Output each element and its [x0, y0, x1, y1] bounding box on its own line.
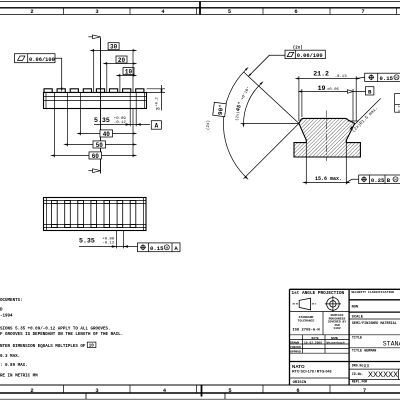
svg-text:NAME: NAME — [331, 337, 338, 340]
svg-text:-0.12: -0.12 — [114, 121, 127, 125]
sheet top zone band bottom line — [0, 14, 400, 16]
svg-text:+0.2: +0.2 — [156, 97, 160, 107]
title block texts — [292, 291, 345, 296]
svg-text:TITLE GERMAN: TITLE GERMAN — [352, 350, 376, 354]
sheet top trim line (thick) — [0, 7, 400, 9]
svg-text:15.6 max.: 15.6 max. — [315, 176, 342, 182]
svg-text:STANAG 46: STANAG 46 — [383, 341, 400, 348]
flatness frame 0.06/100 (top right) — [285, 50, 325, 58]
svg-text:1st ANGLE PROJECTION: 1st ANGLE PROJECTION — [292, 291, 345, 296]
plan view outer rect — [44, 198, 147, 231]
svg-text:ORIGIN: ORIGIN — [293, 381, 307, 385]
top zone ticks — [64, 8, 397, 15]
section profile — [294, 118, 360, 157]
svg-text:40: 40 — [103, 131, 111, 138]
svg-text:ISO 2768-m-H: ISO 2768-m-H — [292, 329, 320, 333]
svg-text:0.06/100: 0.06/100 — [29, 57, 55, 63]
svg-text:0.15: 0.15 — [150, 245, 164, 252]
svg-text:B: B — [368, 88, 372, 95]
plan view chamfer lines — [44, 198, 147, 231]
svg-text:20: 20 — [118, 57, 126, 64]
svg-text:-0.13: -0.13 — [335, 75, 348, 79]
svg-text:OCUMENTS:: OCUMENTS: — [0, 299, 23, 303]
svg-text:5: 5 — [228, 388, 231, 394]
svg-text:7: 7 — [363, 388, 366, 394]
svg-text:SCALE: SCALE — [352, 316, 364, 320]
svg-text:5.35: 5.35 — [94, 117, 110, 124]
svg-text:RTO SCI-178 / RTG-043: RTO SCI-178 / RTG-043 — [292, 370, 331, 374]
dimension 19 +-0.05 — [301, 89, 303, 117]
svg-text:(2x): (2x) — [206, 120, 211, 130]
datum B box — [366, 87, 374, 95]
dimension 5.35 groove width (side view) — [130, 92, 136, 126]
svg-text:0.25: 0.25 — [371, 177, 385, 184]
dimension 21.2 -0.13 — [299, 76, 356, 121]
svg-text:SECURITY CLASSIFICATION: SECURITY CLASSIFICATION — [351, 290, 394, 294]
dimension 50 — [68, 144, 134, 146]
svg-text:2: 2 — [30, 388, 33, 394]
sheet bottom edge line — [0, 398, 400, 400]
svg-text:NATO: NATO — [292, 364, 305, 369]
line L2 down-left 45 — [244, 123, 299, 178]
(2x) label for 90 — [206, 120, 211, 130]
svg-text:10: 10 — [89, 345, 95, 349]
svg-text:-1994: -1994 — [0, 315, 13, 319]
svg-text:DATE: DATE — [312, 337, 319, 340]
svg-text:REPL.FOR: REPL.FOR — [352, 379, 367, 383]
bottom zone band top line — [0, 384, 400, 386]
section arrow top — [88, 35, 100, 39]
svg-text:6: 6 — [296, 388, 299, 394]
svg-text:SIONS 5.35 +0.09/-0.12 APPLY T: SIONS 5.35 +0.09/-0.12 APPLY TO ALL GROO… — [0, 326, 111, 331]
svg-text:XX: XX — [364, 363, 370, 369]
svg-text:50: 50 — [96, 142, 104, 149]
arc 90 deg — [223, 70, 245, 177]
svg-text:CHECKD: CHECKD — [290, 346, 301, 349]
svg-text:3: 3 — [155, 107, 162, 110]
svg-text:ID-No.: ID-No. — [352, 372, 364, 376]
datum B open triangle — [347, 90, 353, 94]
line L3 horizontal — [241, 122, 299, 124]
svg-text:0.06/100: 0.06/100 — [297, 53, 323, 59]
svg-text:APPRVD: APPRVD — [290, 351, 301, 354]
svg-text:5: 5 — [228, 9, 231, 15]
svg-text:-0.12: -0.12 — [102, 242, 115, 246]
rail body — [44, 93, 147, 109]
line L1 up-left 45 — [244, 72, 299, 123]
bottom zone band thick line — [0, 392, 400, 394]
svg-text:90°: 90° — [217, 104, 225, 116]
rotated frame at right edge — [395, 94, 400, 113]
datum A box — [151, 121, 161, 130]
boxed 90 deg label — [213, 102, 226, 116]
svg-text:2: 2 — [30, 9, 33, 15]
bottom fold mark right — [224, 393, 226, 399]
svg-text:3: 3 — [95, 9, 98, 15]
svg-text:6: 6 — [294, 9, 297, 15]
dimension 5.35 (plan view) — [116, 231, 123, 249]
svg-text:NON: NON — [352, 305, 358, 309]
dimension 15.6 max — [306, 139, 346, 184]
dimension 3 +0.2 (right end) — [147, 89, 165, 93]
dimension 30 — [94, 50, 133, 52]
position frame 0.25 B M (bottom right) — [359, 175, 400, 184]
top zone numbers — [30, 9, 364, 15]
bottom centre mark — [201, 385, 203, 397]
flatness leader — [55, 58, 62, 87]
svg-text:5.35: 5.35 — [79, 238, 95, 245]
svg-text:19: 19 — [318, 85, 326, 92]
dimension 10 — [120, 75, 133, 77]
svg-text:7: 7 — [361, 9, 364, 15]
svg-text:SEMI/FINISHED MATERIAL: SEMI/FINISHED MATERIAL — [352, 321, 397, 326]
top centre mark — [199, 2, 201, 15]
svg-text:NTER DIMENSION EQUALS MULTIPLE: NTER DIMENSION EQUALS MULTIPLES OF — [0, 345, 86, 349]
profile centerline — [326, 111, 328, 162]
arc 45 deg — [244, 84, 261, 123]
section arrow bottom — [88, 169, 100, 173]
rail lands (8 ribs) — [44, 89, 144, 93]
svg-text:60: 60 — [92, 153, 100, 160]
extension lines above rail — [94, 49, 133, 93]
flatness leader (to 45 deg surface ext) — [251, 55, 285, 74]
dimension 40 — [81, 133, 133, 135]
dimension 20 — [107, 63, 133, 65]
svg-text:: 0.89 MAX.: : 0.89 MAX. — [0, 364, 28, 368]
svg-text:21.2: 21.2 — [313, 71, 329, 78]
position frame 0.15 M (top right, cut) — [365, 73, 400, 81]
svg-text:TITLE: TITLE — [352, 336, 362, 340]
45 deg +0 10' label on arc — [238, 81, 256, 121]
bottom zone ticks — [64, 385, 331, 393]
bottom zone numbers — [30, 388, 366, 394]
svg-text:Weinerbach: Weinerbach — [327, 340, 345, 344]
rail body inner lines — [44, 93, 147, 109]
svg-text:3: 3 — [95, 388, 98, 394]
extension lines below rail — [54, 92, 133, 157]
svg-text:XXXXXX: XXXXXX — [368, 370, 398, 380]
projection circle symbol — [325, 296, 341, 312]
sheet top edge line — [0, 1, 400, 3]
svg-text:±0.05: ±0.05 — [327, 88, 340, 92]
R1.5 max leader — [352, 99, 380, 127]
svg-text:0.15: 0.15 — [380, 75, 394, 82]
svg-text:10: 10 — [125, 69, 133, 76]
svg-text:30: 30 — [110, 44, 118, 51]
svg-text:TOLERANCE: TOLERANCE — [298, 318, 315, 322]
projection cone symbol — [293, 298, 317, 310]
flatness frame 0.06/100 (left) — [15, 54, 56, 63]
bottom fold mark left — [85, 393, 87, 399]
svg-text:1302: 1302 — [333, 326, 341, 330]
svg-text:(2x): (2x) — [293, 45, 303, 50]
svg-text:RE IN METRIC MM: RE IN METRIC MM — [0, 375, 38, 379]
svg-text:A: A — [155, 123, 159, 130]
position frame 0.15 M A — [138, 243, 181, 252]
45 degree construction lines — [223, 70, 299, 179]
short ext line near top right corner — [348, 120, 359, 122]
plan view slots — [52, 200, 136, 227]
svg-text:DRAWN: DRAWN — [290, 341, 299, 344]
svg-text:0.3 MAX.: 0.3 MAX. — [0, 355, 20, 359]
dimension 60 — [54, 155, 133, 157]
section cut line — [100, 38, 102, 174]
svg-text:19.02.2006: 19.02.2006 — [304, 341, 322, 344]
svg-text:F GROOVES IS DEPENDANT ON THE: F GROOVES IS DEPENDANT ON THE LENGTH OF … — [0, 333, 123, 337]
